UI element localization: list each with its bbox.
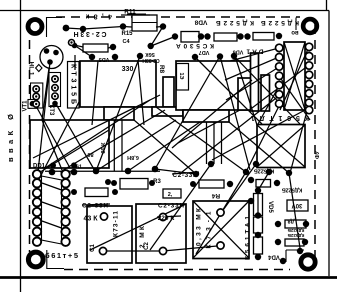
svg-text:86 К: 86 К	[101, 142, 107, 154]
svg-text:HL 1: HL 1	[28, 62, 35, 76]
svg-text:КД522Б: КД522Б	[282, 187, 302, 193]
svg-text:С2: С2	[144, 242, 150, 250]
svg-text:VD4: VD4	[268, 254, 280, 260]
svg-text:1Э: 1Э	[178, 73, 184, 80]
svg-text:61: 61	[76, 165, 82, 171]
svg-text:КД522Б: КД522Б	[287, 233, 304, 238]
svg-text:VD7: VD7	[199, 49, 210, 55]
svg-text:56К: 56К	[145, 51, 155, 57]
svg-text:С2-33Н: С2-33Н	[142, 57, 160, 63]
svg-text:КД522Б: КД522Б	[287, 228, 304, 233]
svg-text:КТ3: КТ3	[48, 105, 54, 116]
svg-text:86: 86	[87, 151, 93, 157]
svg-text:КД522Б: КД522Б	[254, 168, 274, 174]
svg-text:С2-33Н: С2-33Н	[74, 30, 107, 37]
svg-text:VD6: VD6	[233, 49, 244, 55]
svg-text:С2-33Н: С2-33Н	[82, 203, 108, 210]
svg-text:С4: С4	[122, 39, 130, 45]
svg-text:С1: С1	[90, 244, 96, 252]
svg-text:6,8Н: 6,8Н	[127, 154, 139, 160]
svg-text:R8: R8	[158, 65, 165, 74]
svg-text:во: во	[291, 29, 299, 35]
svg-text:Д8: Д8	[288, 218, 295, 224]
svg-text:VD5: VD5	[267, 201, 273, 213]
svg-text:43 К: 43 К	[83, 216, 98, 223]
svg-text:R3: R3	[153, 179, 161, 185]
svg-text:DD1: DD1	[33, 164, 46, 170]
svg-text:К73-11: К73-11	[113, 211, 120, 237]
svg-text:С2-33Н: С2-33Н	[173, 172, 198, 179]
svg-text:R4: R4	[211, 192, 220, 199]
svg-text:30V: 30V	[292, 202, 303, 208]
svg-text:VT1: VT1	[23, 100, 29, 112]
svg-text:220 К: 220 К	[158, 215, 175, 222]
svg-text:DA1: DA1	[246, 48, 263, 55]
svg-text:330: 330	[122, 66, 134, 73]
svg-text:ФУ: ФУ	[315, 150, 321, 158]
svg-text:R15: R15	[121, 31, 133, 37]
svg-text:2,: 2,	[168, 192, 173, 198]
svg-text:VD5: VD5	[99, 56, 110, 62]
svg-text:VD8: VD8	[194, 19, 207, 26]
svg-text:С2-33Н: С2-33Н	[158, 203, 184, 210]
